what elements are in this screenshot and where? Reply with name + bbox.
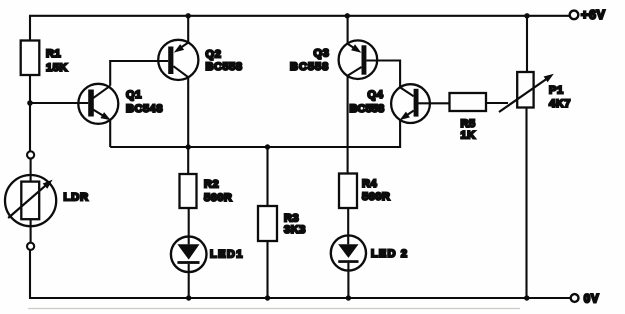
wire top rail to Q3 emitter [347,16,349,44]
wire Q2 collector down to R2 [187,77,189,174]
wire Q1 collector up and across to Q2 base [110,61,168,86]
wire Q4 base to R5 [419,102,450,104]
transistor Q2 [158,40,242,80]
svg-text:LDR: LDR [64,192,90,204]
scan artifact line (faint) [28,308,520,310]
wire left rail upper segment [29,16,31,41]
node 0V rail / LED1 [186,295,191,300]
wire top rail to Q2 emitter [187,16,189,43]
wire R5 to P1 wiper [486,102,508,104]
svg-text:BC558: BC558 [206,61,243,73]
node top rail / Q3 [345,13,350,18]
svg-text:Q4: Q4 [368,89,384,101]
resistor R2 [180,174,233,208]
resistor R1 [21,41,68,76]
wire LDR bottom to 0V rail [29,250,31,298]
wire Q1 base [30,102,88,104]
svg-text:0V: 0V [584,293,600,305]
resistor R5 [450,93,487,142]
wire top rail +6V [29,15,570,17]
wire top rail to P1 [526,16,528,72]
resistor R3 [258,206,306,241]
svg-text:R2: R2 [204,179,219,191]
svg-text:+6V: +6V [581,8,606,22]
wire Q1 emitter down to mid rail [109,120,111,147]
transistor Q1 [78,84,163,124]
svg-text:BC548: BC548 [126,103,163,115]
svg-text:R3: R3 [284,213,299,225]
svg-text:Q1: Q1 [126,89,142,101]
node 0V rail / P1 [524,295,529,300]
svg-text:560R: 560R [362,191,390,203]
LED1 [171,237,244,273]
resistor R4 [339,174,390,209]
wire Q3 collector down to R4 [347,76,349,174]
node A (Q1 base junction) [27,100,33,106]
svg-text:R4: R4 [362,178,378,190]
potentiometer P1 [499,72,571,112]
terminal 0V [571,293,600,305]
svg-text:15K: 15K [46,62,68,74]
wire Q3 base across and down to Q4 [366,61,400,88]
svg-text:Q2: Q2 [206,49,222,61]
wire mid rail to R3 [266,147,268,206]
wire R3 to 0V rail [266,241,268,298]
node top rail / P1 [524,13,529,18]
svg-text:560R: 560R [204,192,232,204]
svg-text:BC558: BC558 [350,103,385,115]
terminal +6V [570,8,606,22]
wire R2 to LED1 [188,208,190,244]
wire R1 bottom to LDR top terminal [29,75,31,151]
svg-text:R5: R5 [461,118,476,130]
wire LED2 to 0V rail [347,263,349,298]
wire P1 bottom to 0V rail [525,108,527,299]
wire LED1 to 0V rail [188,264,190,298]
svg-text:LED1: LED1 [210,249,244,261]
svg-text:LED 2: LED 2 [371,248,408,260]
svg-text:4K7: 4K7 [549,98,571,110]
wire R4 to LED2 [347,208,349,244]
wire mid rail (Q1 emitter to Q4 collector) [110,120,400,147]
svg-text:Q3: Q3 [314,48,330,60]
node mid rail / R3 [265,144,270,149]
svg-text:R1: R1 [46,48,61,60]
node mid rail / R2 [186,144,191,149]
LED2 [331,235,408,270]
svg-text:P1: P1 [549,85,564,97]
transistor Q3 [290,40,377,79]
svg-text:BC558: BC558 [290,61,329,73]
node 0V rail / LED2 [346,295,351,300]
node top rail / Q2 [186,13,191,18]
node 0V rail / R3 [265,295,270,300]
LDR [5,151,89,250]
transistor Q4 [350,84,430,123]
wire bottom rail 0V [29,297,571,299]
svg-text:1K: 1K [461,130,476,142]
svg-text:3K3: 3K3 [284,224,306,236]
